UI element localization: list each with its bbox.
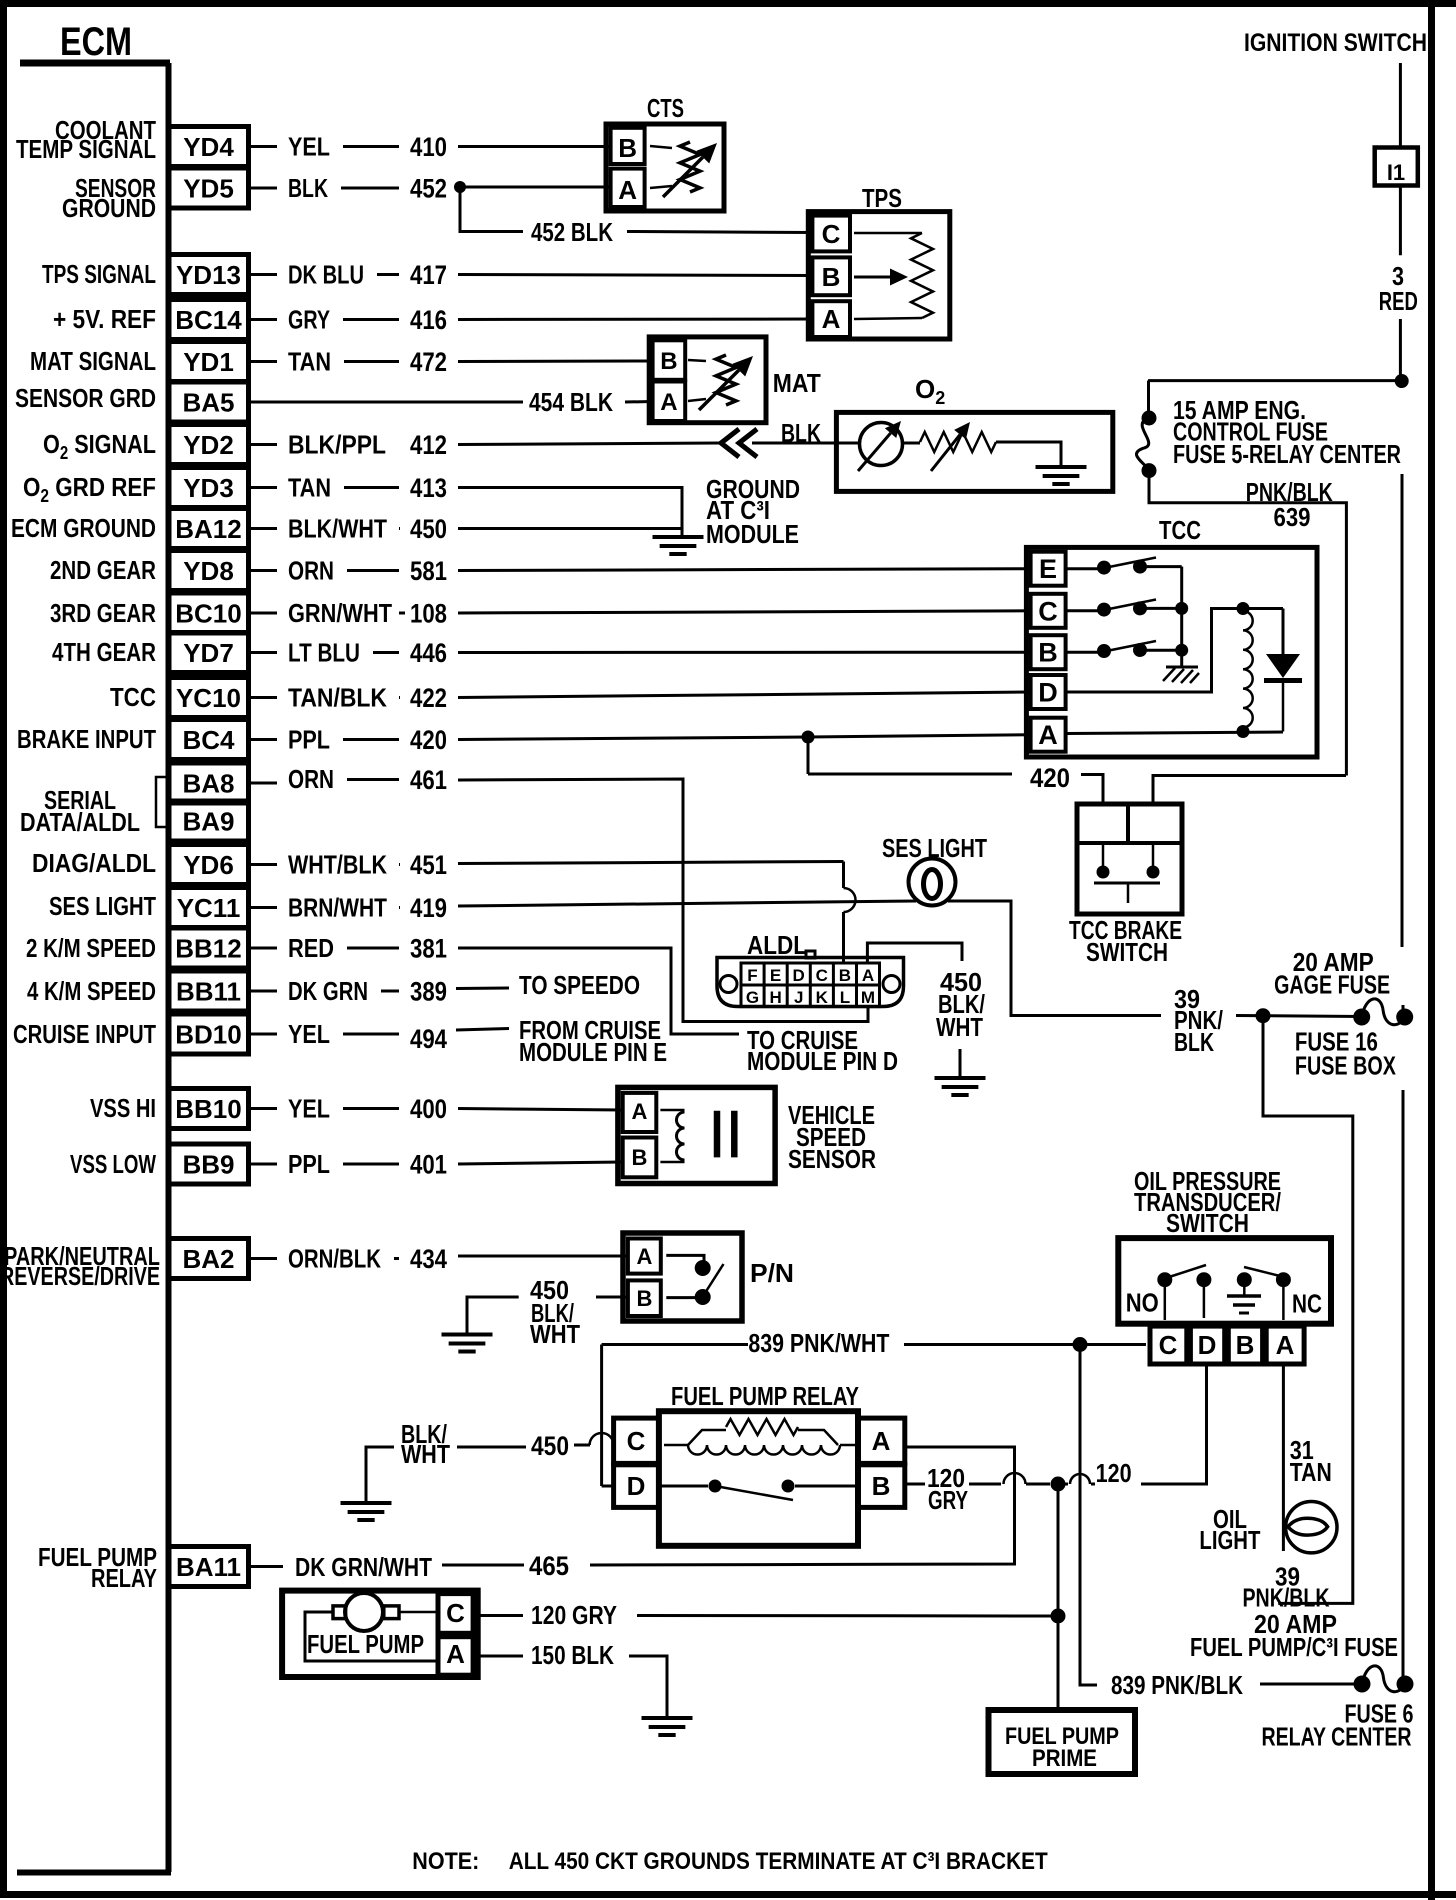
wire YD3 stub: [249, 486, 278, 489]
node TCC coil top: [1237, 602, 1250, 615]
ECM pin YC11: [169, 888, 249, 928]
svg-text:452 BLK: 452 BLK: [531, 217, 613, 247]
svg-text:GRN/WHT: GRN/WHT: [288, 598, 392, 628]
svg-text:BA9: BA9: [182, 807, 234, 837]
svg-text:ECM GROUND: ECM GROUND: [11, 513, 156, 543]
svg-text:C: C: [816, 966, 828, 985]
MAT thermistor: [688, 360, 706, 361]
TCC switch C: [1066, 609, 1098, 612]
svg-text:581: 581: [410, 556, 447, 586]
ECM pin BB9: [169, 1144, 249, 1184]
svg-text:YEL: YEL: [288, 1019, 330, 1049]
ECM pin YD13: [169, 255, 249, 295]
svg-text:465: 465: [529, 1551, 569, 1581]
wire BC10 stub: [249, 612, 278, 615]
svg-text:FUEL PUMP/C³I FUSE: FUEL PUMP/C³I FUSE: [1190, 1632, 1398, 1662]
wire 839 drop to relay pin D: [600, 1345, 603, 1487]
svg-text:TCC: TCC: [1159, 515, 1201, 545]
wire BD10 stub: [249, 1033, 278, 1036]
svg-text:381: 381: [410, 934, 447, 964]
svg-text:P/N: P/N: [750, 1258, 794, 1288]
node 420 junction: [802, 731, 815, 744]
wire BB9 stub: [249, 1163, 278, 1166]
svg-text:B: B: [618, 133, 637, 163]
wire ignition feed down right side: [1401, 474, 1404, 947]
wire YD7 stub: [249, 651, 278, 654]
wire 461 serial data: [458, 779, 868, 1022]
svg-text:MAT: MAT: [773, 368, 821, 398]
wire 450 BLK/WHT to P/N pin B: [596, 1296, 628, 1299]
svg-text:J: J: [794, 988, 803, 1007]
ECM pin YD8: [169, 551, 249, 591]
svg-text:BA8: BA8: [182, 769, 234, 799]
wire 120 drop to fuel pump prime: [1057, 1484, 1060, 1710]
svg-text:3RD GEAR: 3RD GEAR: [50, 598, 156, 628]
TCC switch E: [1066, 567, 1098, 570]
fuel pump pin C: [438, 1594, 473, 1634]
svg-text:450: 450: [410, 514, 447, 544]
diode CR1: [1266, 654, 1300, 678]
svg-text:GRY: GRY: [288, 305, 330, 335]
relay pin C: [614, 1418, 659, 1463]
wire ignition to I1: [1399, 63, 1402, 146]
svg-text:DK BLU: DK BLU: [288, 260, 364, 290]
wire 420 to brake switch: [1081, 775, 1103, 807]
svg-text:PPL: PPL: [288, 725, 330, 755]
wire 454 BLK to MAT pin A: [625, 400, 653, 404]
svg-text:B: B: [839, 966, 851, 985]
wire 839 PNK/BLK: [1080, 1345, 1097, 1686]
fuel pump internal wires: [399, 1611, 438, 1614]
svg-text:TCC: TCC: [110, 682, 156, 712]
svg-text:BB11: BB11: [176, 977, 241, 1007]
svg-text:120 GRY: 120 GRY: [531, 1600, 617, 1630]
svg-text:452: 452: [410, 174, 447, 204]
svg-text:B: B: [636, 1286, 652, 1311]
VSS pin A: [623, 1093, 657, 1132]
svg-text:BD10: BD10: [175, 1020, 241, 1050]
svg-text:ALL 450 CKT GROUNDS TERMINATE: ALL 450 CKT GROUNDS TERMINATE AT C³I BRA…: [509, 1848, 1048, 1875]
svg-text:TAN: TAN: [288, 347, 331, 377]
svg-text:YD1: YD1: [183, 347, 234, 377]
svg-text:BA11: BA11: [176, 1552, 241, 1582]
wire 401 to VSS pin B: [458, 1162, 623, 1164]
svg-text:BA2: BA2: [182, 1244, 234, 1274]
svg-text:C: C: [446, 1598, 465, 1628]
node TCC C junction: [1175, 602, 1188, 615]
wire 839 PNK/WHT: [602, 1343, 748, 1346]
svg-text:D: D: [1038, 678, 1058, 708]
node TCC B junction: [1175, 644, 1188, 657]
TCC switch B: [1066, 651, 1098, 654]
ECM pin YD6: [169, 845, 249, 885]
CTS thermistor: [650, 146, 672, 148]
lamp OIL LIGHT: [1286, 1502, 1337, 1553]
fuse 20 AMP GAGE: [1353, 1009, 1370, 1026]
svg-text:NO: NO: [1126, 1288, 1159, 1318]
svg-text:WHT: WHT: [401, 1439, 450, 1469]
svg-text:472: 472: [410, 347, 447, 377]
relay pin A: [858, 1418, 905, 1463]
wire 839 PNK/WHT right: [904, 1343, 1146, 1346]
svg-text:CRUISE INPUT: CRUISE INPUT: [13, 1019, 156, 1049]
wire 150 BLK to ground: [629, 1656, 667, 1717]
svg-text:451: 451: [410, 850, 447, 880]
ground at C3I module symbol: [653, 535, 704, 539]
svg-text:SENSOR: SENSOR: [788, 1144, 876, 1174]
svg-text:BB12: BB12: [175, 934, 241, 964]
svg-text:BRAKE INPUT: BRAKE INPUT: [17, 724, 156, 754]
svg-text:H: H: [769, 988, 781, 1007]
MAT pin A: [653, 382, 686, 422]
svg-text:L: L: [840, 988, 850, 1007]
O2 internal wire: [996, 442, 1061, 466]
svg-text:RELAY CENTER: RELAY CENTER: [1262, 1722, 1412, 1752]
svg-text:SWITCH: SWITCH: [1166, 1208, 1249, 1238]
VSS pin B: [623, 1138, 657, 1178]
svg-text:TAN: TAN: [1290, 1457, 1332, 1487]
svg-text:GRY: GRY: [928, 1485, 968, 1515]
svg-text:D: D: [1198, 1330, 1217, 1360]
ECM pin BB12: [169, 928, 249, 968]
wire BA2 stub: [249, 1257, 278, 1260]
svg-text:MODULE PIN E: MODULE PIN E: [519, 1037, 667, 1067]
wire 120 GRY relay pin B: [905, 1483, 925, 1486]
svg-text:B: B: [632, 1145, 648, 1170]
CTS pin A: [611, 169, 645, 207]
svg-text:IGNITION SWITCH: IGNITION SWITCH: [1244, 29, 1427, 57]
TCC pin D: [1031, 675, 1066, 709]
svg-text:YD6: YD6: [183, 850, 234, 880]
TCC pin E: [1031, 552, 1066, 586]
svg-text:B: B: [1236, 1330, 1255, 1360]
svg-text:BC14: BC14: [175, 305, 242, 335]
svg-text:VSS HI: VSS HI: [90, 1093, 156, 1123]
svg-text:413: 413: [410, 473, 447, 503]
svg-text:839 PNK/BLK: 839 PNK/BLK: [1111, 1670, 1243, 1700]
wire 450 to ground: [458, 527, 682, 530]
oil pressure switch pin D: [1190, 1326, 1224, 1364]
wire 410 to CTS pin B: [458, 145, 611, 148]
svg-text:MODULE: MODULE: [706, 519, 799, 549]
svg-text:FUEL PUMP: FUEL PUMP: [307, 1629, 424, 1659]
svg-text:400: 400: [410, 1094, 447, 1124]
svg-text:120: 120: [1096, 1458, 1132, 1488]
svg-text:DK GRN/WHT: DK GRN/WHT: [295, 1552, 432, 1582]
svg-text:A: A: [446, 1639, 465, 1669]
wire YC11 stub: [249, 906, 278, 909]
svg-text:SES LIGHT: SES LIGHT: [49, 891, 156, 921]
switch P/N: [623, 1233, 742, 1321]
TPS pin B: [812, 257, 850, 295]
ECM pin YD2: [169, 425, 249, 465]
svg-text:YD7: YD7: [183, 638, 234, 668]
ALDL left mounting hole: [720, 976, 737, 993]
fuel pump pin A: [438, 1637, 473, 1676]
svg-text:+ 5V. REF: + 5V. REF: [53, 304, 156, 334]
svg-text:BA5: BA5: [182, 388, 234, 418]
wire 472 to MAT pin B: [458, 360, 653, 364]
oil pressure switch pin A: [1266, 1326, 1304, 1364]
svg-text:BLK: BLK: [781, 418, 821, 448]
ECM pin BC4: [169, 720, 249, 760]
svg-text:BB9: BB9: [182, 1150, 234, 1180]
svg-text:4 K/M SPEED: 4 K/M SPEED: [27, 976, 156, 1006]
svg-text:YC11: YC11: [177, 893, 241, 923]
wire to 15A fuse: [1147, 381, 1150, 414]
svg-text:BLK/PPL: BLK/PPL: [288, 430, 386, 460]
svg-text:FUSE 5-RELAY CENTER: FUSE 5-RELAY CENTER: [1173, 439, 1401, 469]
ECM pin BC14: [169, 300, 249, 340]
wire 420 horizontal: [808, 773, 1012, 776]
wire 108 to TCC pin C: [458, 611, 1030, 613]
svg-text:BLK/WHT: BLK/WHT: [288, 514, 387, 544]
svg-text:BLK: BLK: [288, 173, 328, 203]
wire 31 TAN from pin A: [1282, 1367, 1285, 1552]
svg-text:A: A: [618, 175, 637, 205]
connector FUEL PUMP PRIME: [989, 1710, 1136, 1774]
svg-text:TO SPEEDO: TO SPEEDO: [519, 970, 640, 1000]
svg-text:NOTE:: NOTE:: [412, 1848, 479, 1875]
wire YD5 BLK stub: [249, 187, 278, 190]
svg-text:389: 389: [410, 977, 447, 1007]
node 120 fuel pump junction: [1051, 1609, 1066, 1624]
serial data bracket: [156, 777, 168, 827]
svg-text:LT BLU: LT BLU: [288, 638, 360, 668]
svg-text:I1: I1: [1387, 160, 1405, 185]
TPS wiper arrow: [854, 276, 890, 279]
ECM pin BA8: [169, 763, 249, 803]
svg-text:YD13: YD13: [176, 260, 241, 290]
svg-text:YD8: YD8: [183, 556, 234, 586]
svg-text:G: G: [746, 988, 759, 1007]
fuse 15 AMP ENG CONTROL: [1142, 411, 1157, 426]
wire 150 BLK from fuel pump: [479, 1655, 523, 1658]
svg-text:BC4: BC4: [182, 725, 235, 755]
svg-text:108: 108: [410, 599, 447, 629]
wire BA5 454 BLK: [249, 401, 524, 404]
wire P/N ground lead: [467, 1297, 519, 1333]
wire 3 RED: [1399, 319, 1402, 377]
svg-text:MODULE PIN D: MODULE PIN D: [747, 1046, 898, 1076]
svg-text:A: A: [1038, 720, 1058, 750]
svg-text:420: 420: [1030, 763, 1070, 793]
svg-text:BLK: BLK: [1174, 1027, 1214, 1057]
wire 419 to SES light: [458, 901, 916, 906]
wire BA12 stub: [249, 527, 278, 530]
ALDL right mounting hole: [883, 976, 900, 993]
svg-text:F: F: [747, 966, 757, 985]
wire YD6 stub: [249, 863, 278, 866]
svg-text:839 PNK/WHT: 839 PNK/WHT: [748, 1328, 889, 1358]
node TCC coil bottom: [1237, 725, 1250, 738]
wire 452 to CTS pin A: [460, 186, 611, 189]
svg-text:GAGE FUSE: GAGE FUSE: [1274, 969, 1390, 999]
wire 446 to TCC pin B: [458, 651, 1030, 654]
wire 420 to TCC pin A: [458, 737, 808, 740]
wire 581 to TCC pin E: [458, 569, 1030, 571]
MAT pin B: [653, 340, 686, 380]
svg-text:BC10: BC10: [175, 599, 241, 629]
ALDL pin grid: [741, 963, 880, 1007]
svg-text:TPS: TPS: [862, 183, 902, 213]
wire 120 GRY from fuel pump: [479, 1614, 523, 1617]
svg-text:ECM: ECM: [60, 20, 132, 64]
wire 465 to fuel pump relay pin A: [590, 1447, 1015, 1565]
svg-text:494: 494: [410, 1024, 447, 1054]
ground P/N: [442, 1333, 493, 1337]
svg-text:639: 639: [1274, 502, 1311, 532]
node gage fuse junction: [1256, 1008, 1271, 1023]
svg-text:150 BLK: 150 BLK: [531, 1640, 614, 1670]
TCC pin B: [1031, 635, 1066, 669]
svg-text:DATA/ALDL: DATA/ALDL: [20, 807, 140, 837]
switch TCC brake switch: [1077, 804, 1182, 914]
O2 sensor meter: [860, 423, 903, 466]
connector I1: [1375, 148, 1418, 186]
svg-text:YD2: YD2: [183, 430, 234, 460]
wire 39 PNK/BLK to gage fuse: [1236, 1016, 1362, 1017]
wire YD8 stub: [249, 569, 278, 572]
svg-text:YC10: YC10: [176, 683, 241, 713]
svg-text:454 BLK: 454 BLK: [529, 387, 613, 417]
node 839 junction: [1073, 1337, 1088, 1352]
svg-text:WHT: WHT: [530, 1319, 580, 1349]
ECM pin BA2: [169, 1239, 249, 1279]
svg-text:RED: RED: [288, 933, 334, 963]
relay coil resistor: [664, 1444, 688, 1447]
svg-text:PRIME: PRIME: [1032, 1745, 1097, 1772]
ground fuel pump relay: [341, 1501, 392, 1505]
svg-text:B: B: [822, 262, 841, 292]
wire relay ground lead: [366, 1447, 394, 1502]
svg-text:D: D: [793, 966, 805, 985]
wire 494 from cruise: [456, 1029, 509, 1031]
svg-text:WHT/BLK: WHT/BLK: [288, 850, 387, 880]
svg-text:420: 420: [410, 725, 447, 755]
svg-text:MAT SIGNAL: MAT SIGNAL: [30, 346, 156, 376]
CTS pin B: [611, 128, 645, 164]
ECM module outline: [20, 60, 170, 67]
svg-text:2 K/M SPEED: 2 K/M SPEED: [26, 933, 156, 963]
wire 450 BLK/WHT to relay pin C: [574, 1444, 590, 1447]
ECM pin YC10: [169, 678, 249, 718]
P/N pin B: [628, 1280, 661, 1316]
oil pressure switch contacts: [1157, 1272, 1172, 1287]
svg-text:E: E: [770, 966, 781, 985]
wire ALDL pin A to ground 450: [867, 943, 962, 963]
svg-text:VSS LOW: VSS LOW: [70, 1149, 156, 1179]
wire 434 to P/N switch pin A: [458, 1255, 628, 1258]
ground ALDL 450: [959, 1049, 962, 1077]
TCC pin A: [1031, 718, 1066, 752]
wire BC14 stub: [249, 318, 278, 321]
wire BC4 stub: [249, 738, 278, 741]
wire BB11 stub: [249, 990, 278, 993]
ECM pin YD5: [169, 168, 249, 208]
svg-text:A: A: [822, 304, 841, 334]
wire ignition feed to 15A fuse: [1148, 379, 1402, 382]
svg-text:C: C: [822, 219, 841, 249]
relay pin D: [614, 1465, 659, 1508]
ECM pin BC10: [169, 593, 249, 633]
wire YD2 stub: [249, 443, 278, 446]
ALDL keyway notch: [806, 951, 815, 958]
TPS potentiometer: [854, 232, 922, 235]
svg-text:A: A: [636, 1244, 652, 1269]
svg-text:YD3: YD3: [183, 473, 234, 503]
svg-text:461: 461: [410, 765, 447, 795]
svg-text:K: K: [816, 988, 829, 1007]
TPS pin C: [812, 216, 850, 252]
wire I1 down: [1399, 186, 1402, 256]
wire 839 PNK/BLK to fuse 6: [1260, 1683, 1362, 1686]
svg-text:410: 410: [410, 132, 447, 162]
wire BB10 stub: [249, 1107, 278, 1110]
wire 416 to TPS pin A: [458, 318, 812, 322]
svg-text:RED: RED: [1379, 286, 1418, 316]
wire 389 to speedo: [456, 987, 509, 991]
sensor VSS: [618, 1087, 775, 1183]
svg-text:DIAG/ALDL: DIAG/ALDL: [32, 848, 156, 878]
svg-text:SENSOR GRD: SENSOR GRD: [15, 383, 156, 413]
ECM pin BA9: [169, 801, 249, 841]
ECM pin YD4: [169, 127, 249, 167]
svg-text:ORN: ORN: [288, 764, 334, 794]
TCC pin C: [1031, 594, 1066, 628]
fuel pump motor: [345, 1593, 383, 1631]
page border frame: [0, 0, 7, 1898]
wire 422 to TCC pin D: [458, 692, 1030, 698]
svg-text:YEL: YEL: [288, 132, 330, 162]
svg-text:A: A: [1276, 1330, 1295, 1360]
wire YD4 YEL stub: [249, 145, 278, 148]
svg-text:YD5: YD5: [183, 174, 234, 204]
svg-text:YEL: YEL: [288, 1094, 330, 1124]
svg-text:WHT: WHT: [936, 1012, 983, 1042]
svg-text:401: 401: [410, 1150, 447, 1180]
wire SES light to gage fuse: [948, 901, 1161, 1016]
svg-text:LIGHT: LIGHT: [1199, 1525, 1260, 1555]
wire YC10 stub: [249, 696, 278, 699]
wire 639 PNK/BLK: [1149, 471, 1346, 776]
oil pressure switch pin B: [1228, 1326, 1262, 1364]
ECM pin BA5: [169, 382, 249, 422]
svg-text:2ND GEAR: 2ND GEAR: [50, 555, 156, 585]
svg-text:SWITCH: SWITCH: [1086, 937, 1168, 967]
fuse 20 AMP FUEL PUMP/C3I: [1354, 1676, 1371, 1693]
TCC pin A wire: [1066, 732, 1283, 734]
svg-text:BRN/WHT: BRN/WHT: [288, 893, 387, 923]
ECM pin YD1: [169, 342, 249, 382]
SES light lamp: [909, 859, 956, 906]
svg-text:B: B: [872, 1471, 891, 1501]
svg-text:RELAY: RELAY: [91, 1563, 157, 1593]
wire BB12 stub: [249, 947, 278, 950]
svg-text:A: A: [632, 1099, 648, 1124]
ECM pin BA12: [169, 509, 249, 549]
svg-text:ALDL: ALDL: [747, 930, 807, 960]
ECM pin BA11: [169, 1547, 249, 1587]
wire YD13 stub: [249, 273, 278, 276]
wire 420 branch down: [807, 737, 810, 774]
ECM pin YD3: [169, 468, 249, 508]
svg-text:ORN/BLK: ORN/BLK: [288, 1244, 381, 1274]
svg-text:TPS SIGNAL: TPS SIGNAL: [42, 259, 156, 289]
svg-text:B: B: [660, 348, 677, 375]
wire 400 to VSS pin A: [458, 1109, 623, 1111]
node 452 junction: [454, 181, 466, 193]
